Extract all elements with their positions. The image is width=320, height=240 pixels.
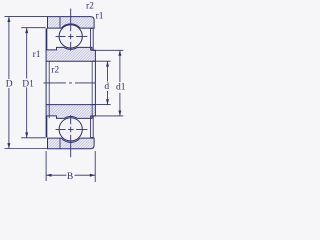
bore chamfer lines (49, 61, 92, 118)
seal left top (46, 28, 48, 50)
dimension D (5, 17, 48, 149)
axis centerline (dash-dot) (44, 82, 96, 84)
ball bottom centerlines (56, 115, 88, 157)
outer ring shield groove line top (59, 17, 61, 29)
ball bottom (59, 118, 82, 141)
dimension d (92, 61, 111, 104)
svg-text:B: B (67, 172, 73, 182)
svg-text:d: d (104, 82, 109, 92)
svg-text:d1: d1 (116, 83, 126, 93)
ball top (59, 25, 82, 48)
svg-text:D: D (6, 80, 13, 90)
svg-text:r2: r2 (51, 66, 59, 76)
seal left bottom (46, 116, 48, 138)
svg-text:r1: r1 (96, 12, 104, 22)
inner ring top section (46, 47, 95, 61)
dimension D1 (21, 28, 45, 138)
ball top centerlines (56, 9, 88, 51)
outer ring shield groove line bottom (59, 138, 61, 149)
dimension B (46, 151, 95, 182)
inner ring bottom section (46, 105, 95, 119)
svg-text:r1: r1 (33, 50, 41, 60)
seal right bottom (91, 116, 94, 138)
outer ring bottom section (48, 138, 95, 149)
outer ring top section (48, 17, 95, 29)
svg-text:D1: D1 (22, 79, 34, 89)
inner ring face lines through bore (46, 61, 95, 104)
dimension d1 (92, 50, 123, 116)
seal right top (91, 28, 94, 50)
svg-text:r2: r2 (86, 2, 94, 12)
